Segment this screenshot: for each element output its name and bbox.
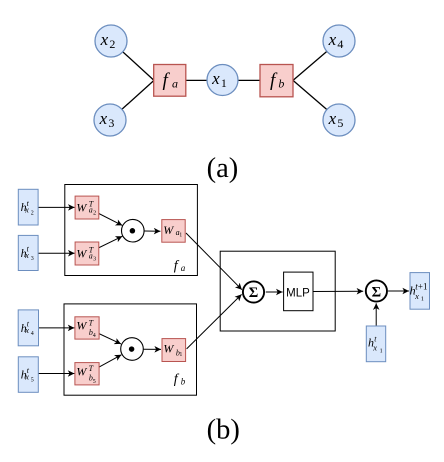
svg-text:x: x — [99, 109, 108, 128]
svg-text:a: a — [172, 76, 178, 90]
svg-text:a: a — [181, 263, 186, 273]
svg-text:W: W — [76, 319, 87, 333]
svg-text:x: x — [24, 372, 29, 382]
svg-text:3: 3 — [93, 257, 96, 263]
box fb — [64, 304, 197, 395]
svg-text:T: T — [89, 364, 94, 373]
svg-text:x: x — [24, 250, 29, 260]
svg-text:2: 2 — [31, 210, 34, 216]
svg-text:Σ: Σ — [249, 285, 258, 301]
factor node fb — [260, 65, 293, 97]
svg-text:Σ: Σ — [372, 284, 381, 300]
wire fb-x5 — [293, 80, 339, 120]
wire hx5 to WTb5 — [38, 373, 74, 375]
wire sum2 to ht+1 — [388, 290, 409, 292]
svg-text:1: 1 — [179, 352, 182, 358]
hadamard2 — [121, 338, 144, 361]
svg-text:x: x — [372, 343, 377, 353]
svg-text:x: x — [328, 109, 337, 128]
wire htx1 to sum2 — [375, 303, 377, 326]
svg-text:5: 5 — [93, 379, 96, 385]
svg-text:T: T — [89, 318, 94, 327]
svg-text:2: 2 — [109, 37, 115, 51]
variable node x4 — [323, 25, 355, 57]
wire x2-fa — [111, 41, 154, 80]
svg-text:W: W — [76, 246, 87, 260]
svg-text:1: 1 — [421, 296, 424, 303]
sum2 — [366, 280, 387, 301]
svg-text:3: 3 — [108, 116, 114, 130]
svg-text:4: 4 — [337, 37, 343, 51]
svg-text:W: W — [76, 200, 87, 214]
variable node x5 — [323, 104, 355, 136]
weight WTb5 — [75, 363, 99, 385]
svg-text:W: W — [163, 223, 174, 237]
weight Wa1 — [162, 220, 185, 243]
variable node x1 — [207, 65, 238, 96]
svg-text:3: 3 — [31, 256, 34, 262]
mlp box — [284, 272, 313, 311]
weight Wb1 — [162, 339, 186, 362]
wire WTb5 to hadamard2 — [87, 355, 121, 374]
svg-text:x: x — [211, 69, 220, 88]
wire mlp to sum2 — [313, 290, 363, 292]
wire Wa1 to sum1 — [186, 233, 242, 290]
sum1 — [243, 281, 264, 302]
wire fa-x1 — [186, 79, 223, 81]
svg-text:(b): (b) — [207, 414, 240, 445]
weight WTa3 — [75, 242, 99, 265]
svg-text:4: 4 — [31, 331, 34, 337]
state hx2 — [18, 189, 38, 225]
factor node fa — [154, 65, 186, 97]
svg-text:MLP: MLP — [286, 288, 310, 300]
svg-text:b: b — [181, 377, 186, 387]
state htx1 — [366, 326, 385, 362]
wire fb-x4 — [293, 41, 339, 80]
box sum-mlp — [220, 251, 335, 331]
variable node x2 — [95, 25, 127, 57]
wire WTa3 to hadamard1 — [87, 236, 122, 253]
svg-text:x: x — [24, 204, 29, 214]
wire hx3 to WTa3 — [38, 252, 75, 254]
variable node x3 — [94, 104, 126, 136]
svg-text:b: b — [278, 77, 284, 91]
svg-text:f: f — [174, 372, 180, 387]
hadamard1 — [122, 219, 145, 242]
svg-text:1: 1 — [221, 76, 227, 90]
svg-text:x: x — [414, 291, 419, 301]
weight WTa2 — [75, 196, 99, 219]
wire x1-fb — [223, 79, 261, 81]
wire hx2 to WTa2 — [38, 206, 75, 208]
svg-text:x: x — [328, 30, 337, 49]
svg-text:5: 5 — [337, 116, 343, 130]
wire hx4 to WTb4 — [39, 327, 75, 329]
svg-text:(a): (a) — [207, 153, 239, 184]
wire sum1 to mlp — [266, 291, 283, 293]
weight WTb4 — [75, 317, 99, 339]
state hx4 — [18, 310, 38, 346]
state hx3 — [18, 235, 38, 270]
svg-text:W: W — [163, 342, 174, 356]
svg-text:W: W — [76, 364, 87, 378]
label fa of box — [174, 258, 186, 273]
wire Wb1 to sum1 — [187, 294, 242, 349]
state ht+1 x1 — [410, 273, 430, 310]
svg-text:+1: +1 — [418, 282, 428, 292]
wire hadamard1 to Wa1 — [144, 230, 160, 232]
svg-text:5: 5 — [31, 378, 34, 384]
svg-text:f: f — [174, 258, 180, 273]
svg-text:1: 1 — [380, 348, 383, 354]
svg-text:1: 1 — [179, 232, 182, 238]
svg-text:2: 2 — [93, 211, 96, 217]
wire x3-fa — [110, 80, 154, 120]
svg-text:x: x — [24, 325, 29, 335]
svg-text:4: 4 — [93, 333, 96, 339]
wire hadamard2 to Wb1 — [144, 348, 161, 350]
wire WTb4 to hadamard2 — [87, 328, 121, 344]
label fb of box — [174, 372, 186, 387]
box fa — [65, 185, 198, 276]
wire WTa2 to hadamard1 — [87, 208, 122, 226]
state hx5 — [18, 357, 38, 393]
svg-text:x: x — [100, 30, 109, 49]
